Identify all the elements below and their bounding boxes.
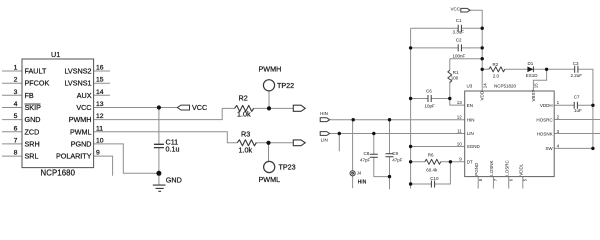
svg-text:SRH: SRH bbox=[25, 139, 40, 148]
svg-text:1: 1 bbox=[14, 65, 18, 72]
svg-text:SGND: SGND bbox=[467, 144, 481, 149]
svg-text:VCC: VCC bbox=[451, 7, 461, 12]
svg-text:2.0: 2.0 bbox=[493, 73, 500, 78]
svg-text:SRL: SRL bbox=[25, 152, 39, 161]
svg-text:AUX: AUX bbox=[77, 91, 92, 100]
svg-text:5: 5 bbox=[14, 113, 18, 120]
svg-text:PWML: PWML bbox=[259, 175, 281, 184]
svg-text:10pF: 10pF bbox=[425, 103, 436, 108]
svg-text:HOSNK: HOSNK bbox=[537, 131, 553, 136]
svg-text:VCC: VCC bbox=[192, 103, 207, 112]
svg-text:HIN: HIN bbox=[320, 111, 328, 116]
svg-text:3.3uF: 3.3uF bbox=[453, 30, 465, 35]
svg-text:PFCOK: PFCOK bbox=[25, 79, 50, 88]
svg-text:PWML: PWML bbox=[70, 127, 92, 136]
svg-text:7: 7 bbox=[14, 137, 18, 144]
svg-text:11: 11 bbox=[457, 128, 462, 133]
svg-text:13: 13 bbox=[96, 101, 104, 108]
svg-text:ES1D: ES1D bbox=[526, 73, 539, 78]
svg-text:VBST: VBST bbox=[531, 89, 536, 101]
svg-text:HOSRC: HOSRC bbox=[536, 117, 553, 122]
svg-text:13: 13 bbox=[457, 100, 463, 105]
svg-text:9: 9 bbox=[96, 150, 100, 157]
svg-text:1.0k: 1.0k bbox=[239, 145, 253, 154]
svg-text:15: 15 bbox=[534, 83, 539, 89]
svg-text:U3: U3 bbox=[467, 84, 473, 89]
svg-text:D1: D1 bbox=[528, 61, 534, 66]
svg-text:R2: R2 bbox=[239, 93, 248, 102]
svg-text:12: 12 bbox=[457, 115, 463, 120]
svg-text:10: 10 bbox=[457, 141, 463, 146]
svg-text:C2: C2 bbox=[456, 38, 462, 43]
svg-text:LIN: LIN bbox=[467, 131, 474, 136]
svg-text:EN: EN bbox=[467, 103, 473, 108]
svg-text:U1: U1 bbox=[51, 50, 60, 59]
svg-text:PWMH: PWMH bbox=[69, 115, 92, 124]
svg-text:C6: C6 bbox=[426, 89, 432, 94]
svg-text:NCP1680: NCP1680 bbox=[41, 169, 76, 178]
svg-text:ZCD: ZCD bbox=[25, 127, 40, 136]
svg-text:C8: C8 bbox=[364, 151, 370, 156]
svg-text:SW: SW bbox=[545, 146, 553, 151]
svg-text:14: 14 bbox=[482, 83, 487, 89]
svg-text:PGND: PGND bbox=[474, 162, 479, 176]
svg-text:2: 2 bbox=[14, 77, 18, 84]
svg-text:0.1u: 0.1u bbox=[166, 145, 180, 154]
svg-text:1.0k: 1.0k bbox=[237, 110, 251, 119]
svg-text:HIN: HIN bbox=[467, 117, 475, 122]
svg-text:60.4k: 60.4k bbox=[426, 167, 438, 172]
svg-text:LVSNS2: LVSNS2 bbox=[64, 67, 91, 76]
svg-text:R2: R2 bbox=[493, 62, 499, 67]
svg-text:TP23: TP23 bbox=[279, 163, 296, 172]
svg-text:LOSRC: LOSRC bbox=[504, 159, 509, 175]
svg-text:1uF: 1uF bbox=[574, 108, 582, 113]
svg-text:LOSNK: LOSNK bbox=[489, 160, 494, 175]
svg-text:FB: FB bbox=[25, 91, 34, 100]
svg-text:16: 16 bbox=[96, 65, 104, 72]
svg-text:R3: R3 bbox=[241, 130, 250, 139]
svg-text:LIN: LIN bbox=[321, 137, 328, 142]
svg-text:C1: C1 bbox=[456, 18, 462, 23]
svg-text:C7: C7 bbox=[574, 94, 580, 99]
svg-text:12: 12 bbox=[96, 113, 104, 120]
svg-text:6: 6 bbox=[14, 125, 18, 132]
svg-text:PWMH: PWMH bbox=[259, 65, 282, 74]
svg-text:LVSNS1: LVSNS1 bbox=[64, 79, 91, 88]
svg-text:10: 10 bbox=[96, 137, 104, 144]
svg-text:11: 11 bbox=[96, 125, 103, 132]
svg-text:VCC: VCC bbox=[76, 103, 91, 112]
svg-text:FAULT: FAULT bbox=[25, 67, 47, 76]
svg-text:R6: R6 bbox=[428, 152, 434, 157]
svg-text:47pF: 47pF bbox=[392, 157, 403, 162]
svg-text:14: 14 bbox=[96, 89, 104, 96]
svg-text:NCP51820: NCP51820 bbox=[494, 84, 517, 89]
svg-text:C10: C10 bbox=[430, 176, 439, 181]
svg-text:GND: GND bbox=[166, 176, 182, 185]
svg-text:HIN: HIN bbox=[358, 179, 367, 185]
svg-text:8: 8 bbox=[14, 150, 18, 157]
svg-text:C3: C3 bbox=[573, 61, 579, 66]
svg-text:DT: DT bbox=[467, 160, 473, 165]
svg-text:3: 3 bbox=[14, 89, 18, 96]
svg-text:PGND: PGND bbox=[71, 139, 92, 148]
svg-text:15: 15 bbox=[96, 77, 104, 84]
svg-text:47pF: 47pF bbox=[360, 158, 371, 163]
svg-text:VDDH: VDDH bbox=[540, 103, 553, 108]
svg-text:TP22: TP22 bbox=[277, 81, 294, 90]
svg-text:POLARITY: POLARITY bbox=[56, 152, 92, 161]
svg-text:VDD: VDD bbox=[480, 90, 485, 100]
svg-text:C9: C9 bbox=[392, 151, 398, 156]
svg-text:100: 100 bbox=[451, 75, 459, 80]
svg-text:J4: J4 bbox=[357, 171, 362, 176]
svg-text:2.2uF: 2.2uF bbox=[571, 73, 583, 78]
svg-text:VDDL: VDDL bbox=[519, 163, 524, 176]
svg-text:100nF: 100nF bbox=[453, 53, 466, 58]
svg-text:GND: GND bbox=[25, 115, 41, 124]
svg-text:4: 4 bbox=[14, 101, 18, 108]
